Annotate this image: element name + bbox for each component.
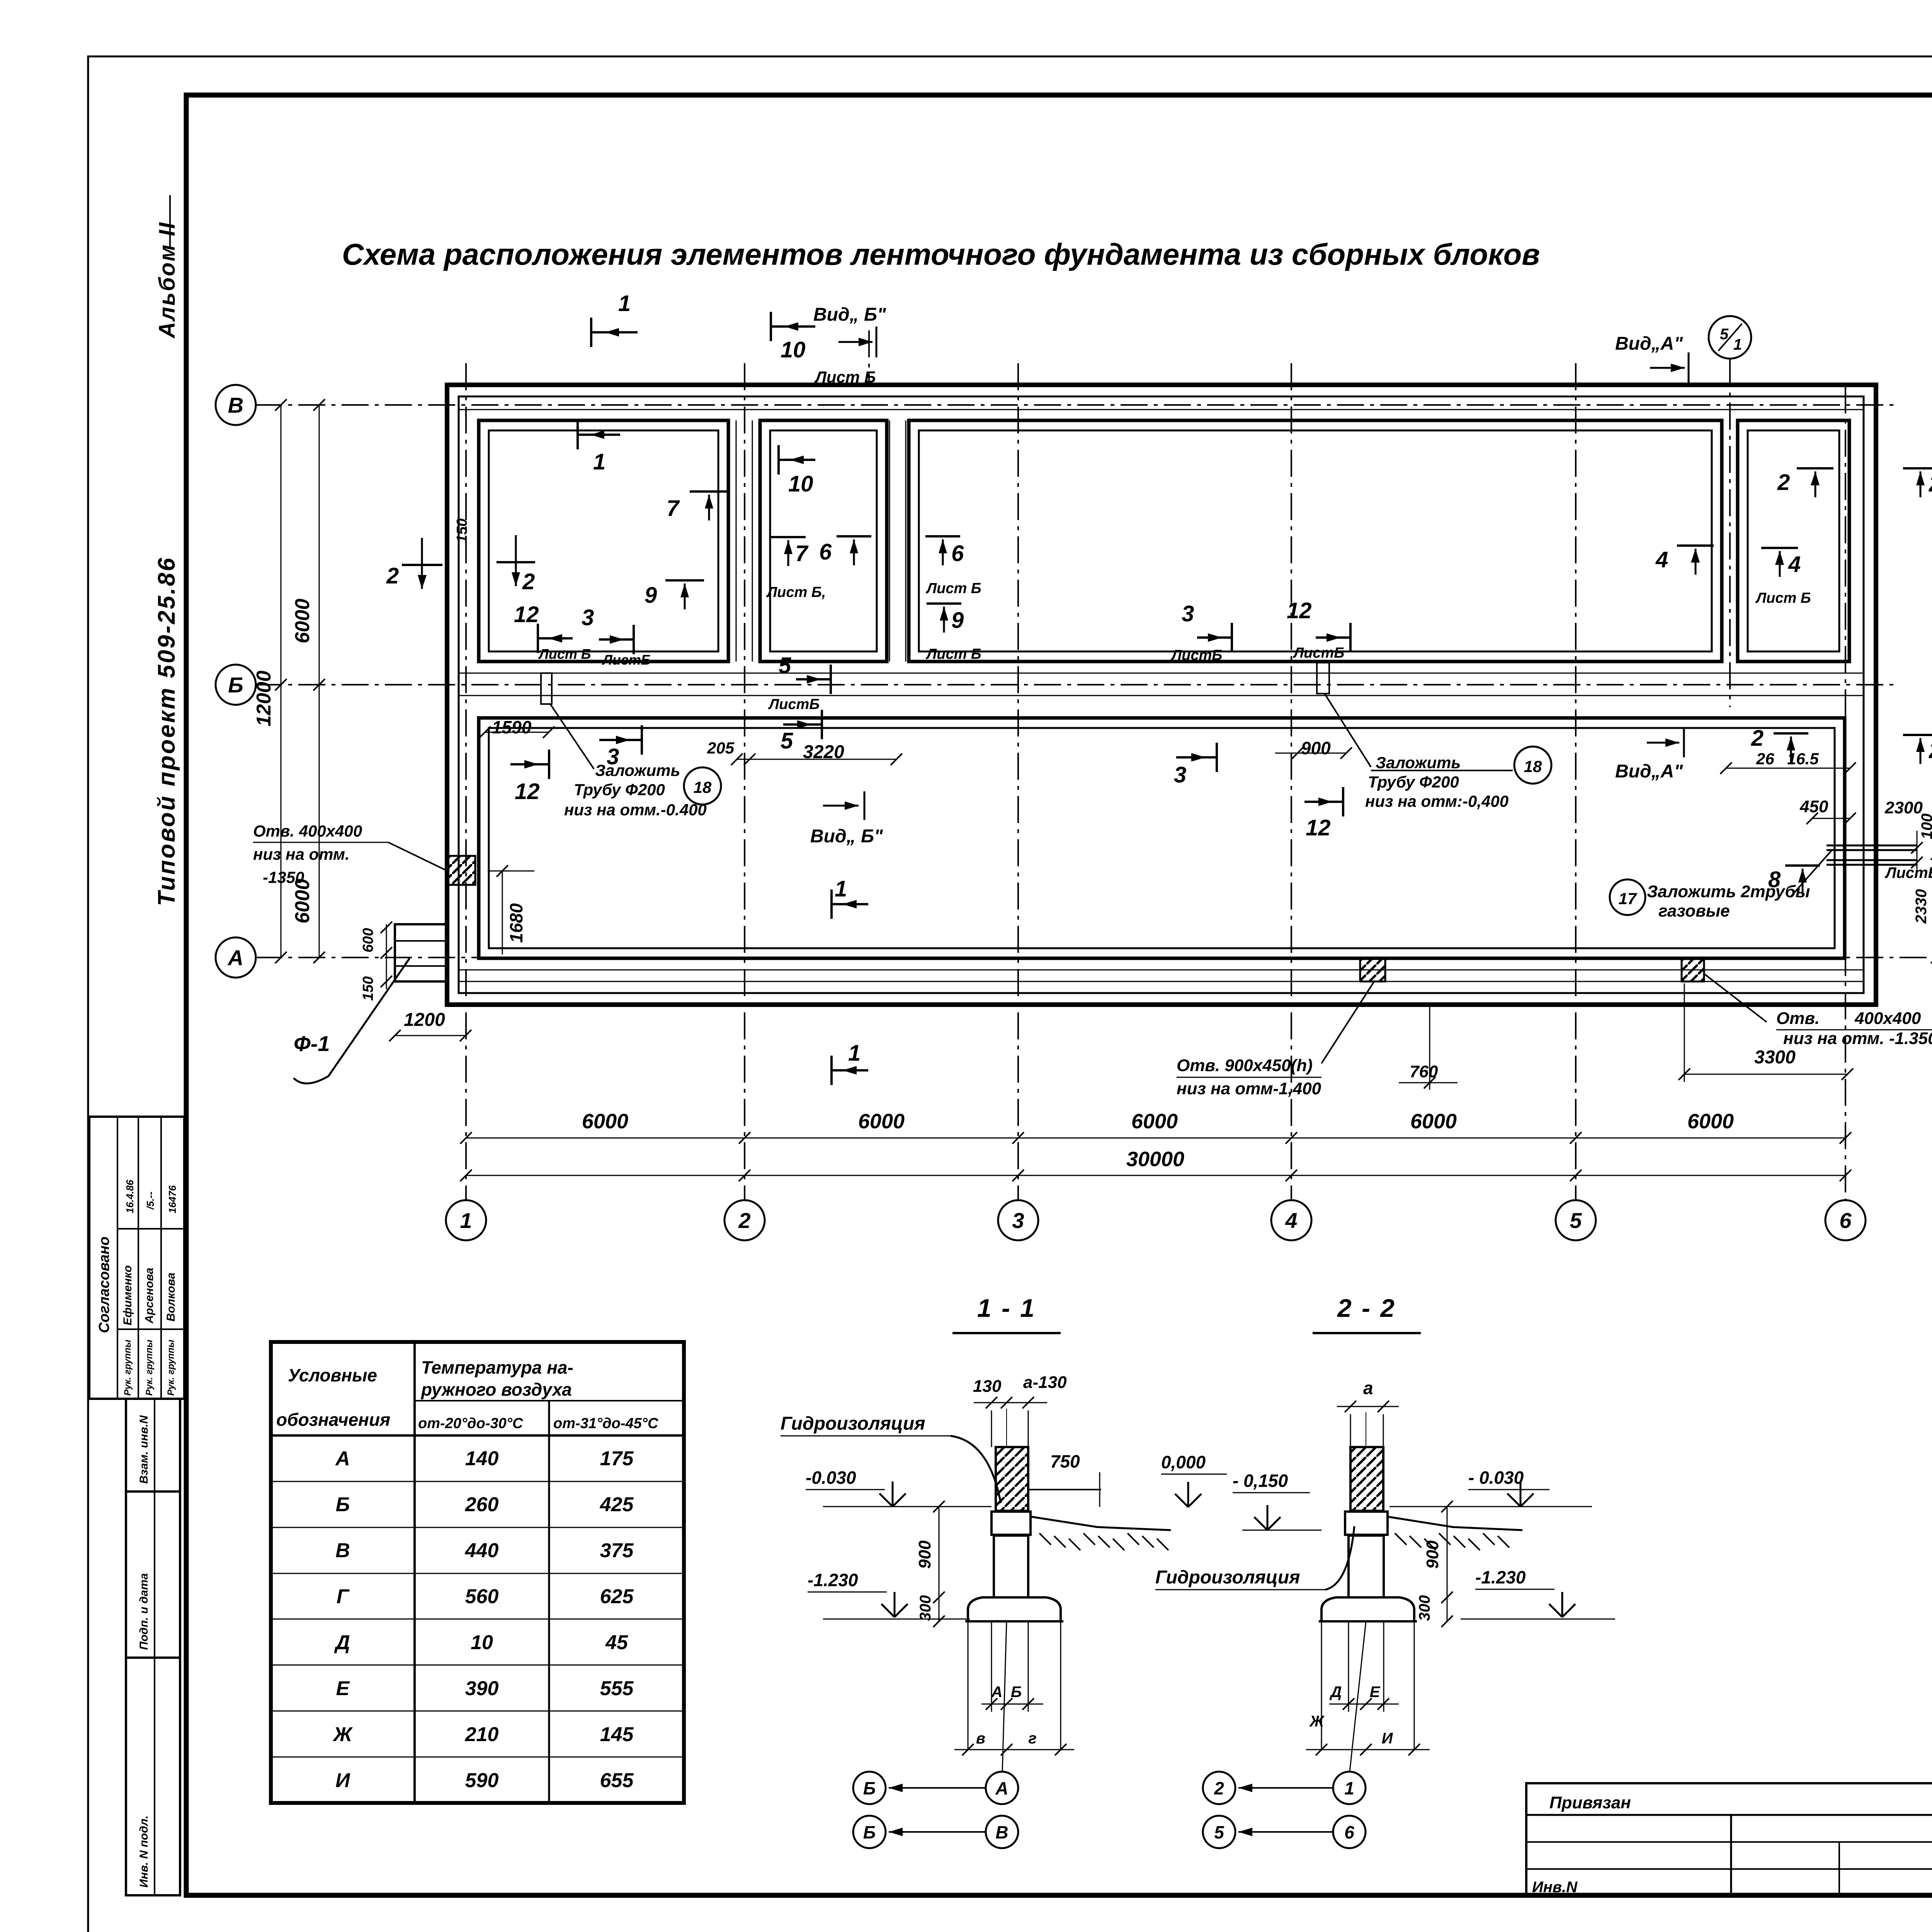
svg-text:26: 26 — [1756, 750, 1774, 768]
svg-text:12000: 12000 — [253, 670, 275, 726]
svg-text:Трубу Ф200: Трубу Ф200 — [574, 781, 665, 799]
svg-text:А: А — [995, 1778, 1008, 1798]
svg-text:3: 3 — [1012, 1208, 1024, 1233]
svg-text:Заложить: Заложить — [595, 761, 680, 779]
svg-text:Гидроизоляция: Гидроизоляция — [1155, 1567, 1300, 1588]
svg-text:2: 2 — [1777, 470, 1790, 495]
svg-text:И: И — [1382, 1730, 1393, 1747]
svg-text:1: 1 — [593, 449, 605, 474]
svg-text:В: В — [335, 1539, 350, 1562]
svg-text:300: 300 — [1416, 1595, 1433, 1621]
svg-text:Заложить: Заложить — [1376, 753, 1461, 772]
svg-text:Инв. N подл.: Инв. N подл. — [138, 1815, 150, 1888]
svg-text:Лист Б,: Лист Б, — [766, 584, 826, 600]
svg-text:10: 10 — [788, 471, 813, 497]
svg-text:100: 100 — [1918, 813, 1932, 839]
svg-text:6: 6 — [1839, 1208, 1852, 1233]
svg-text:Вид„ Б": Вид„ Б" — [810, 826, 883, 847]
svg-text:Вид„А": Вид„А" — [1615, 333, 1683, 354]
svg-text:145: 145 — [600, 1723, 634, 1746]
svg-text:2: 2 — [386, 563, 399, 588]
svg-text:375: 375 — [600, 1539, 634, 1562]
svg-text:Типовой проект 509-25.86: Типовой проект 509-25.86 — [153, 556, 180, 906]
svg-text:Ефименко: Ефименко — [121, 1265, 134, 1325]
svg-text:Взам. инв.N: Взам. инв.N — [138, 1415, 150, 1484]
svg-text:Трубу Ф200: Трубу Ф200 — [1368, 773, 1459, 791]
svg-text:12: 12 — [514, 602, 539, 627]
svg-text:12: 12 — [1306, 815, 1331, 840]
svg-text:210: 210 — [465, 1723, 499, 1746]
svg-text:0,000: 0,000 — [1161, 1452, 1206, 1472]
svg-text:от-31°до-45°С: от-31°до-45°С — [553, 1415, 658, 1432]
svg-text:17: 17 — [1619, 889, 1637, 908]
svg-text:1: 1 — [848, 1041, 861, 1066]
svg-text:низ на отм-1,400: низ на отм-1,400 — [1177, 1079, 1321, 1098]
svg-text:Е: Е — [336, 1677, 350, 1700]
svg-text:1: 1 — [835, 876, 847, 901]
svg-text:5: 5 — [1214, 1822, 1225, 1842]
svg-text:в: в — [976, 1730, 985, 1747]
svg-text:10: 10 — [471, 1631, 493, 1654]
svg-text:ЛистБ: ЛистБ — [1884, 864, 1932, 881]
svg-text:18: 18 — [1524, 757, 1542, 776]
svg-text:Подп. и дата: Подп. и дата — [138, 1573, 150, 1650]
svg-text:от-20°до-30°С: от-20°до-30°С — [418, 1415, 523, 1432]
svg-text:Д: Д — [334, 1631, 350, 1654]
svg-text:И: И — [335, 1769, 350, 1792]
svg-text:2: 2 — [1929, 471, 1932, 497]
svg-text:- 0,150: - 0,150 — [1233, 1471, 1288, 1491]
svg-text:2: 2 — [1751, 726, 1764, 751]
svg-text:Ж: Ж — [1309, 1713, 1325, 1730]
svg-text:150: 150 — [360, 976, 376, 1001]
svg-text:16476: 16476 — [167, 1185, 178, 1213]
svg-text:425: 425 — [600, 1493, 634, 1516]
svg-text:12: 12 — [1287, 598, 1312, 623]
svg-text:г: г — [1028, 1730, 1036, 1747]
svg-text:В: В — [228, 393, 243, 417]
svg-text:900: 900 — [1301, 738, 1331, 758]
svg-text:260: 260 — [465, 1493, 499, 1516]
svg-text:390: 390 — [465, 1677, 499, 1700]
svg-text:16.4.86: 16.4.86 — [124, 1180, 136, 1213]
svg-text:а-130: а-130 — [1023, 1373, 1067, 1392]
svg-text:45: 45 — [605, 1631, 628, 1654]
svg-text:низ на отм:-0,400: низ на отм:-0,400 — [1365, 792, 1509, 810]
svg-text:2: 2 — [522, 569, 535, 594]
svg-text:ЛистБ: ЛистБ — [1170, 647, 1222, 663]
svg-text:Лист Б: Лист Б — [925, 646, 981, 662]
svg-text:Лист Б: Лист Б — [1755, 590, 1811, 606]
svg-text:Рук. группы: Рук. группы — [166, 1340, 176, 1396]
svg-text:5: 5 — [1570, 1208, 1582, 1233]
svg-text:1: 1 — [460, 1208, 472, 1233]
svg-text:-1.230: -1.230 — [1475, 1567, 1526, 1587]
svg-text:Отв.: Отв. — [1776, 1009, 1820, 1028]
svg-text:А: А — [335, 1447, 350, 1470]
svg-text:6000: 6000 — [1687, 1110, 1734, 1133]
svg-text:Д: Д — [1330, 1684, 1342, 1701]
svg-text:Привязан: Привязан — [1549, 1793, 1631, 1812]
svg-text:-1350: -1350 — [263, 868, 304, 886]
svg-text:Температура на-: Температура на- — [421, 1357, 573, 1378]
svg-text:1200: 1200 — [404, 1010, 445, 1030]
svg-text:205: 205 — [707, 739, 735, 757]
svg-text:ЛистБ: ЛистБ — [602, 652, 651, 668]
svg-text:6: 6 — [819, 539, 832, 565]
svg-text:Б: Б — [336, 1493, 350, 1516]
svg-text:130: 130 — [973, 1377, 1002, 1396]
svg-text:Условные: Условные — [288, 1365, 377, 1385]
svg-text:Арсенова: Арсенова — [143, 1268, 156, 1324]
svg-text:Ж: Ж — [332, 1723, 353, 1746]
svg-text:- 0.030: - 0.030 — [1468, 1468, 1524, 1488]
svg-text:Г: Г — [337, 1585, 350, 1608]
svg-text:Заложить 2трубы: Заложить 2трубы — [1647, 882, 1810, 901]
svg-text:4: 4 — [1788, 552, 1801, 577]
svg-text:Вид„А": Вид„А" — [1615, 761, 1683, 782]
svg-text:6000: 6000 — [1410, 1110, 1457, 1133]
svg-text:2330: 2330 — [1913, 889, 1930, 924]
svg-text:5: 5 — [1720, 326, 1729, 343]
svg-text:низ на отм.-0.400: низ на отм.-0.400 — [564, 801, 707, 819]
svg-text:1680: 1680 — [506, 903, 526, 943]
svg-text:30000: 30000 — [1126, 1148, 1184, 1171]
svg-text:3: 3 — [582, 605, 594, 630]
svg-text:7: 7 — [795, 541, 809, 566]
svg-text:Волкова: Волкова — [165, 1272, 177, 1321]
svg-text:газовые: газовые — [1658, 901, 1730, 920]
svg-text:6000: 6000 — [291, 599, 314, 643]
svg-text:900: 900 — [915, 1540, 934, 1569]
svg-text:6000: 6000 — [582, 1110, 628, 1133]
svg-text:7: 7 — [667, 496, 680, 521]
svg-text:В: В — [995, 1822, 1008, 1842]
svg-text:обозначения: обозначения — [276, 1410, 390, 1430]
svg-text:625: 625 — [600, 1585, 634, 1608]
svg-text:150: 150 — [454, 519, 470, 543]
svg-text:Схема расположения элементов л: Схема расположения элементов ленточного … — [342, 237, 1540, 271]
svg-text:ЛистБ: ЛистБ — [1293, 645, 1344, 661]
svg-text:1 - 1: 1 - 1 — [977, 1294, 1036, 1322]
svg-text:6: 6 — [951, 541, 964, 566]
svg-text:2: 2 — [1929, 738, 1932, 763]
svg-text:-1.230: -1.230 — [808, 1570, 858, 1590]
svg-text:А: А — [227, 946, 243, 970]
svg-text:300: 300 — [917, 1595, 934, 1621]
svg-text:1: 1 — [1344, 1778, 1354, 1798]
svg-text:18: 18 — [694, 778, 712, 796]
svg-text:4: 4 — [1285, 1208, 1297, 1233]
svg-text:Рук. группы: Рук. группы — [122, 1340, 133, 1396]
svg-text:560: 560 — [465, 1585, 499, 1608]
svg-text:175: 175 — [600, 1447, 634, 1470]
svg-text:ЛистБ: ЛистБ — [768, 696, 820, 713]
svg-text:400х400: 400х400 — [1854, 1009, 1921, 1028]
svg-text:Рук. группы: Рук. группы — [144, 1340, 155, 1396]
svg-text:3: 3 — [1174, 762, 1186, 787]
svg-text:Гидроизоляция: Гидроизоляция — [781, 1413, 925, 1434]
svg-text:3300: 3300 — [1754, 1047, 1796, 1068]
svg-text:1: 1 — [1733, 336, 1742, 353]
svg-text:2: 2 — [1214, 1778, 1224, 1798]
svg-text:2300: 2300 — [1884, 798, 1923, 817]
svg-text:16.5: 16.5 — [1787, 750, 1819, 768]
svg-text:6: 6 — [1344, 1822, 1354, 1842]
svg-text:-0.030: -0.030 — [806, 1468, 856, 1488]
svg-text:450: 450 — [1799, 797, 1828, 816]
svg-text:/5.--: /5.-- — [145, 1192, 156, 1210]
svg-text:6000: 6000 — [858, 1110, 905, 1133]
svg-text:Б: Б — [1011, 1684, 1022, 1701]
svg-text:750: 750 — [1050, 1451, 1080, 1471]
svg-text:Ф-1: Ф-1 — [294, 1031, 330, 1056]
svg-text:Согласовано: Согласовано — [96, 1236, 112, 1333]
svg-text:2 - 2: 2 - 2 — [1337, 1294, 1396, 1322]
svg-text:Лист Б: Лист Б — [538, 646, 591, 662]
svg-text:9: 9 — [645, 583, 657, 608]
svg-text:ружного воздуха: ружного воздуха — [420, 1379, 572, 1400]
svg-text:низ на отм.: низ на отм. — [253, 845, 350, 863]
svg-text:555: 555 — [600, 1677, 634, 1700]
svg-text:низ на отм. -1.350: низ на отм. -1.350 — [1783, 1029, 1932, 1048]
svg-text:6000: 6000 — [1131, 1110, 1178, 1133]
svg-text:Б: Б — [863, 1822, 876, 1842]
svg-text:Б: Б — [863, 1778, 876, 1798]
svg-text:Отв. 400х400: Отв. 400х400 — [253, 822, 362, 840]
svg-text:590: 590 — [465, 1769, 499, 1792]
svg-text:655: 655 — [600, 1769, 634, 1792]
svg-text:140: 140 — [465, 1447, 499, 1470]
svg-text:600: 600 — [360, 928, 376, 952]
svg-text:Б: Б — [228, 673, 243, 697]
svg-text:Отв. 900х450(h): Отв. 900х450(h) — [1177, 1056, 1313, 1075]
svg-text:2: 2 — [738, 1208, 750, 1233]
svg-text:5: 5 — [779, 653, 791, 678]
svg-text:а: а — [1363, 1378, 1373, 1398]
svg-text:Альбом II: Альбом II — [155, 221, 180, 339]
svg-text:9: 9 — [951, 608, 964, 633]
svg-text:Инв.N: Инв.N — [1532, 1879, 1578, 1896]
svg-text:3: 3 — [1182, 601, 1194, 626]
svg-text:440: 440 — [465, 1539, 499, 1562]
svg-text:4: 4 — [1655, 547, 1668, 572]
svg-text:900: 900 — [1423, 1540, 1442, 1569]
svg-text:Вид„ Б": Вид„ Б" — [813, 304, 886, 325]
svg-text:1590: 1590 — [492, 717, 532, 737]
svg-text:12: 12 — [515, 779, 540, 804]
svg-text:Лист Б: Лист Б — [814, 368, 876, 386]
svg-text:5: 5 — [781, 728, 793, 753]
svg-text:1: 1 — [618, 291, 631, 316]
svg-text:Лист Б: Лист Б — [925, 580, 981, 597]
svg-text:10: 10 — [781, 337, 806, 362]
